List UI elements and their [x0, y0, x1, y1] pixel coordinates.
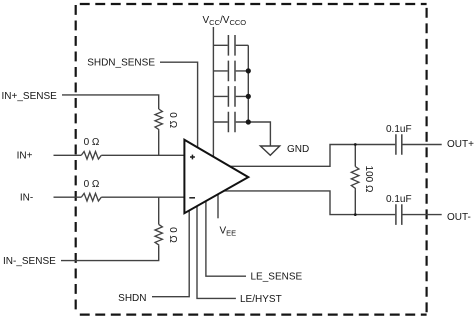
svg-text:OUT+: OUT+: [447, 139, 474, 150]
svg-text:0 Ω: 0 Ω: [84, 179, 100, 190]
svg-text:LE_SENSE: LE_SENSE: [251, 272, 303, 283]
svg-text:VCC/VCCO: VCC/VCCO: [203, 15, 247, 27]
svg-text:IN+_SENSE: IN+_SENSE: [2, 91, 58, 102]
svg-text:0.1uF: 0.1uF: [386, 194, 412, 205]
svg-text:IN-_SENSE: IN-_SENSE: [3, 256, 56, 267]
svg-text:0 Ω: 0 Ω: [167, 112, 178, 128]
svg-text:100 Ω: 100 Ω: [363, 166, 374, 193]
svg-text:IN-: IN-: [20, 193, 33, 204]
svg-text:IN+: IN+: [17, 151, 33, 162]
svg-text:GND: GND: [287, 144, 309, 155]
svg-text:LE/HYST: LE/HYST: [240, 294, 282, 305]
svg-text:SHDN: SHDN: [118, 293, 146, 304]
svg-text:0 Ω: 0 Ω: [167, 227, 178, 243]
svg-text:SHDN_SENSE: SHDN_SENSE: [87, 58, 155, 69]
svg-text:0 Ω: 0 Ω: [84, 137, 100, 148]
svg-text:VEE: VEE: [220, 226, 237, 238]
svg-text:0.1uF: 0.1uF: [386, 124, 412, 135]
svg-text:OUT-: OUT-: [447, 212, 471, 223]
